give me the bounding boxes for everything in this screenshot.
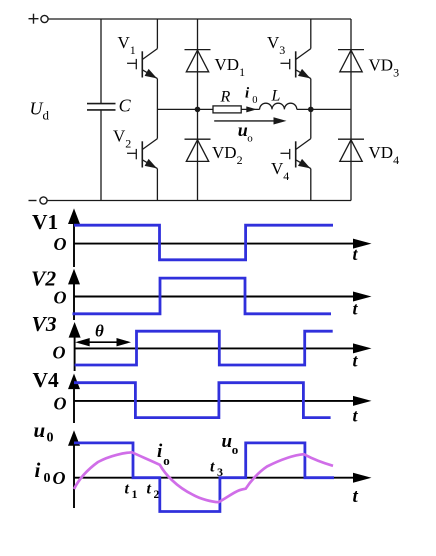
resistor R (213, 106, 241, 113)
transistor V2 (IGBT) (127, 139, 157, 169)
svg-text:Ud: Ud (30, 99, 50, 123)
current arrow io on wire (246, 106, 256, 112)
wire midpoint to load (157, 108, 213, 110)
theta phase arrow (75, 338, 131, 346)
wire capacitor branch lower (100, 110, 102, 201)
svg-text:O: O (53, 343, 66, 363)
svg-text:t: t (210, 459, 215, 476)
svg-text:VD3: VD3 (369, 56, 400, 80)
svg-text:i: i (35, 458, 41, 482)
svg-text:i: i (157, 441, 163, 462)
transistor V1 (IGBT) (127, 49, 157, 79)
axis V2 row (74, 281, 356, 320)
svg-text:1: 1 (132, 487, 138, 501)
terminal + positive (29, 14, 49, 24)
waveform V4 (74, 383, 331, 418)
svg-text:VD2: VD2 (212, 143, 243, 167)
axis V1 row (74, 220, 356, 267)
wire inductor to right leg (297, 108, 351, 110)
svg-text:VD1: VD1 (215, 55, 246, 79)
waveform V3 (75, 331, 333, 365)
waveform u0 square (74, 443, 334, 512)
axis V3 row (75, 334, 356, 371)
svg-text:t: t (125, 481, 130, 498)
transistor V3 (IGBT) (281, 49, 311, 79)
capacitor C plates (87, 104, 116, 110)
svg-text:V4: V4 (271, 159, 289, 183)
svg-text:VD4: VD4 (369, 143, 400, 167)
svg-text:V2: V2 (113, 127, 131, 151)
svg-text:0: 0 (47, 431, 54, 446)
diode VD3 (338, 50, 364, 72)
wire top rail (48, 18, 351, 20)
svg-text:0: 0 (44, 471, 51, 486)
terminal - negative (29, 197, 48, 204)
waveform V2 (73, 278, 332, 314)
svg-text:θ: θ (95, 322, 104, 341)
node B right midpoint junction (308, 107, 314, 113)
wire left switch leg bottom (156, 169, 158, 201)
wire resistor to inductor (241, 108, 259, 110)
svg-text:O: O (54, 394, 67, 414)
wire left switch leg top (156, 19, 158, 49)
diode VD1 (185, 50, 211, 72)
voltage arrow uo (214, 117, 286, 124)
svg-text:t: t (353, 406, 359, 426)
svg-text:V1: V1 (32, 210, 58, 234)
svg-text:V1: V1 (118, 33, 136, 57)
svg-text:C: C (119, 96, 132, 116)
svg-text:t: t (353, 351, 359, 371)
wire right switch leg bottom (310, 169, 312, 201)
svg-text:t: t (147, 481, 152, 498)
wire left switch leg middle (156, 79, 158, 139)
svg-text:L: L (271, 88, 281, 105)
diode VD4 (338, 139, 364, 161)
wire capacitor branch upper (100, 19, 102, 103)
svg-text:i: i (245, 86, 250, 102)
svg-text:V4: V4 (33, 368, 60, 392)
svg-text:t: t (353, 486, 359, 507)
svg-text:V3: V3 (32, 312, 57, 336)
svg-text:O: O (54, 234, 67, 254)
waveform V1 (74, 225, 333, 260)
node A left midpoint junction (195, 107, 201, 113)
svg-text:u: u (222, 431, 233, 452)
transistor V4 (IGBT) (281, 139, 311, 169)
svg-text:R: R (220, 89, 231, 106)
wire bottom rail (47, 200, 351, 202)
svg-text:o: o (163, 453, 170, 468)
wire right diode leg (350, 19, 352, 201)
wire left diode leg (197, 19, 199, 201)
svg-text:u: u (34, 418, 46, 442)
waveform i0 curve (74, 452, 333, 502)
svg-text:o: o (232, 442, 239, 457)
svg-text:V3: V3 (267, 33, 285, 57)
wire right switch leg middle (310, 79, 312, 139)
axis u0 i0 row (74, 443, 356, 508)
svg-text:O: O (54, 288, 67, 308)
svg-text:0: 0 (252, 95, 257, 106)
svg-text:o: o (247, 133, 253, 145)
wire right switch leg top (310, 19, 312, 49)
diode VD2 (185, 139, 211, 161)
svg-text:t: t (353, 299, 359, 319)
svg-text:O: O (53, 468, 66, 488)
inductor L (260, 103, 297, 109)
axis V4 row (74, 386, 356, 423)
